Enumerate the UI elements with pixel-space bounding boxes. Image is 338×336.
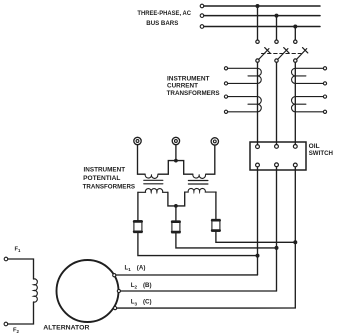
alternator circle bbox=[57, 260, 119, 322]
svg-text:CURRENT: CURRENT bbox=[167, 83, 198, 90]
svg-text:(A): (A) bbox=[137, 265, 146, 272]
wire: center junction down to fuse 2 bbox=[175, 206, 177, 220]
svg-text:ALTERNATOR: ALTERNATOR bbox=[43, 325, 90, 332]
wire: phase B down to oil switch bbox=[276, 62, 278, 144]
disconnect switch 3 bbox=[294, 40, 308, 62]
label: three-phase AC bus bars bbox=[137, 10, 191, 27]
svg-text:THREE-PHASE, AC: THREE-PHASE, AC bbox=[137, 10, 191, 17]
wire: fuse 2 to junction on line B bbox=[176, 232, 275, 248]
svg-text:F2: F2 bbox=[13, 328, 20, 335]
wire: F1 to field coil bbox=[8, 259, 34, 279]
field terminal F2 bbox=[4, 322, 8, 326]
wire: line L1 bbox=[116, 274, 258, 276]
wire: phase C primary through CT2 to oil switch bbox=[294, 62, 296, 144]
current transformer CT1 secondary winding 1 bbox=[224, 67, 261, 85]
PT primary terminal T2 bbox=[172, 137, 179, 144]
wire: bus 1 tap down to switch 1 bbox=[257, 6, 259, 40]
current transformer CT2 secondary winding 2 bbox=[292, 95, 327, 113]
current transformer CT2 secondary winding 1 bbox=[292, 67, 327, 85]
bus bar phase 3 bbox=[200, 25, 320, 29]
wire: fuse 3 to junction on line C bbox=[216, 232, 293, 242]
wire: T1 down to PT1 primary bbox=[138, 145, 145, 175]
wire: oil switch to L2 corner bbox=[276, 167, 278, 291]
oil switch contacts bottom row bbox=[256, 163, 298, 167]
wire: PT2 secondary right down to fuse 3 bbox=[215, 192, 217, 220]
junction: PT primaries center bbox=[174, 159, 178, 163]
wire: bus 2 tap down to switch 2 bbox=[276, 16, 278, 40]
svg-text:(B): (B) bbox=[143, 282, 152, 289]
junction on bus 2 bbox=[275, 14, 279, 18]
svg-text:TRANSFORMERS: TRANSFORMERS bbox=[83, 184, 136, 191]
alternator terminal L3 bbox=[114, 307, 117, 310]
wire: fuse 1 to junction on line A bbox=[138, 233, 256, 256]
fuse 1 bbox=[134, 221, 142, 233]
label: instrument potential transformers bbox=[83, 166, 136, 190]
PT1 core bbox=[144, 180, 163, 184]
wire: PT1 secondary left down to fuse 1 bbox=[137, 192, 139, 220]
field terminal F1 bbox=[4, 257, 8, 261]
PT primary terminal T1 bbox=[134, 137, 141, 144]
svg-text:L1: L1 bbox=[125, 265, 132, 273]
svg-text:(C): (C) bbox=[143, 299, 152, 306]
gang linkage dashed line bbox=[262, 53, 302, 55]
svg-text:OIL: OIL bbox=[309, 143, 320, 150]
current transformer CT1 secondary winding 2 bbox=[224, 95, 261, 113]
bus bar phase 2 bbox=[200, 14, 320, 18]
disconnect switch 1 bbox=[256, 40, 270, 62]
potential transformer PT2 secondary winding bbox=[185, 188, 216, 192]
junction: fuse1 line on phase A bbox=[256, 254, 260, 258]
junction: fuse3 line on phase C bbox=[293, 240, 297, 244]
wire: junction to PT2 primary bbox=[176, 161, 193, 175]
junction on bus 3 bbox=[293, 25, 297, 29]
svg-text:INSTRUMENT: INSTRUMENT bbox=[167, 75, 210, 82]
junction on bus 1 bbox=[256, 4, 260, 8]
svg-text:POTENTIAL: POTENTIAL bbox=[83, 175, 120, 182]
wire: PT2 secondary left end to center junction bbox=[176, 192, 185, 206]
wire: bus 3 tap down to switch 3 bbox=[294, 27, 296, 40]
wire: oil switch to L1 corner bbox=[257, 167, 259, 275]
wire: oil switch to L3 corner bbox=[294, 167, 296, 308]
oil switch box bbox=[250, 142, 306, 170]
wire: PT2 primary up to T3 bbox=[206, 145, 215, 174]
wire: phase A primary through CT1 to oil switch bbox=[257, 62, 259, 144]
svg-text:F1: F1 bbox=[15, 247, 22, 254]
wire: PT1 secondary right end to center junction bbox=[168, 192, 176, 206]
oil switch contacts top row bbox=[256, 145, 298, 149]
label: oil switch bbox=[309, 143, 334, 157]
potential transformer PT1 primary winding bbox=[145, 174, 158, 178]
bus bar phase 1 bbox=[200, 4, 320, 8]
svg-text:L3: L3 bbox=[131, 299, 138, 307]
potential transformer PT1 secondary winding bbox=[138, 189, 168, 193]
svg-text:SWITCH: SWITCH bbox=[309, 150, 334, 157]
PT primary terminal T3 bbox=[211, 138, 218, 145]
alternator terminal L1 bbox=[113, 274, 116, 277]
fuse 2 bbox=[172, 221, 180, 233]
label: instrument current transformers bbox=[167, 75, 220, 97]
wire: field coil to F2 bbox=[8, 302, 34, 324]
svg-text:L2: L2 bbox=[131, 282, 138, 290]
svg-text:TRANSFORMERS: TRANSFORMERS bbox=[167, 90, 220, 97]
potential transformer PT2 primary winding bbox=[193, 174, 206, 178]
svg-text:INSTRUMENT: INSTRUMENT bbox=[84, 166, 126, 173]
PT2 core bbox=[188, 181, 208, 185]
junction: PT secondaries center bbox=[174, 204, 178, 208]
wire: line L3 bbox=[117, 307, 296, 309]
field winding coil bbox=[34, 279, 38, 302]
wire: PT1 primary to center junction bbox=[158, 161, 176, 175]
alternator terminal L2 bbox=[117, 289, 120, 292]
junction: fuse2 line on phase B bbox=[275, 246, 279, 250]
fuse 3 bbox=[212, 219, 220, 231]
wire: line L2 bbox=[121, 290, 277, 292]
disconnect switch 2 bbox=[275, 40, 289, 62]
svg-text:BUS BARS: BUS BARS bbox=[146, 20, 179, 27]
wire: T2 down to junction bbox=[175, 145, 177, 161]
